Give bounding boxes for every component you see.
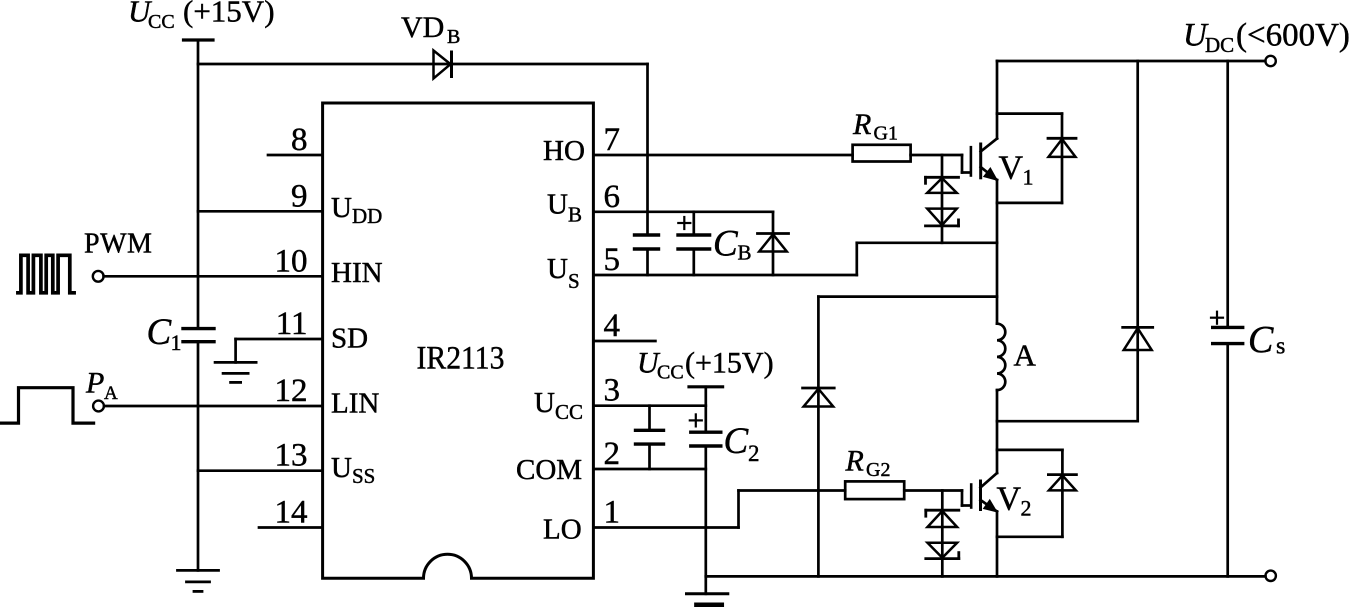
- svg-text:B: B: [738, 241, 752, 265]
- svg-text:C: C: [724, 421, 750, 462]
- svg-text:9: 9: [291, 178, 308, 214]
- svg-text:CC: CC: [148, 11, 175, 33]
- svg-text:5: 5: [604, 242, 621, 278]
- svg-text:U: U: [534, 387, 555, 419]
- svg-text:s: s: [1276, 334, 1285, 360]
- svg-text:V: V: [997, 481, 1022, 518]
- svg-text:A: A: [1014, 338, 1037, 373]
- svg-text:C: C: [147, 312, 173, 353]
- svg-text:1: 1: [171, 330, 182, 355]
- svg-text:VD: VD: [401, 11, 444, 44]
- svg-text:7: 7: [604, 122, 621, 158]
- svg-text:10: 10: [275, 243, 308, 279]
- svg-text:U: U: [331, 192, 352, 224]
- svg-text:SD: SD: [331, 323, 368, 355]
- svg-text:G2: G2: [866, 459, 890, 481]
- svg-text:HIN: HIN: [331, 257, 383, 289]
- svg-text:14: 14: [275, 495, 308, 531]
- svg-text:DC: DC: [1205, 33, 1234, 57]
- svg-text:C: C: [1248, 319, 1274, 361]
- svg-text:B: B: [568, 202, 582, 226]
- svg-text:IR2113: IR2113: [417, 340, 505, 376]
- svg-text:(+15V): (+15V): [685, 347, 774, 380]
- svg-text:1: 1: [1023, 165, 1034, 190]
- svg-text:U: U: [547, 188, 568, 220]
- svg-text:2: 2: [748, 441, 760, 466]
- svg-text:(+15V): (+15V): [183, 0, 275, 29]
- svg-text:HO: HO: [543, 135, 585, 167]
- svg-text:U: U: [331, 452, 352, 484]
- svg-text:(<600V): (<600V): [1236, 18, 1350, 54]
- svg-text:DD: DD: [352, 204, 382, 228]
- svg-text:4: 4: [604, 308, 621, 344]
- svg-text:G1: G1: [874, 123, 898, 145]
- svg-text:12: 12: [275, 373, 308, 409]
- svg-text:13: 13: [275, 438, 308, 474]
- svg-text:CC: CC: [555, 400, 583, 424]
- svg-text:CC: CC: [657, 362, 684, 384]
- svg-text:2: 2: [604, 436, 621, 472]
- svg-text:A: A: [104, 383, 118, 404]
- svg-text:8: 8: [291, 122, 308, 158]
- svg-text:2: 2: [1021, 496, 1032, 521]
- svg-text:R: R: [852, 108, 871, 141]
- svg-text:V: V: [999, 150, 1024, 187]
- svg-text:COM: COM: [516, 454, 582, 486]
- svg-text:S: S: [568, 269, 580, 293]
- svg-text:11: 11: [276, 306, 308, 342]
- svg-text:LO: LO: [543, 514, 582, 546]
- svg-text:C: C: [713, 224, 739, 265]
- svg-text:3: 3: [604, 373, 621, 409]
- svg-text:R: R: [845, 445, 864, 478]
- svg-text:SS: SS: [352, 464, 375, 488]
- svg-text:6: 6: [604, 179, 621, 215]
- svg-text:B: B: [447, 26, 460, 48]
- svg-text:U: U: [547, 253, 568, 285]
- svg-text:LIN: LIN: [331, 388, 379, 420]
- svg-text:1: 1: [604, 495, 621, 531]
- svg-text:PWM: PWM: [84, 229, 152, 260]
- svg-text:P: P: [85, 367, 104, 400]
